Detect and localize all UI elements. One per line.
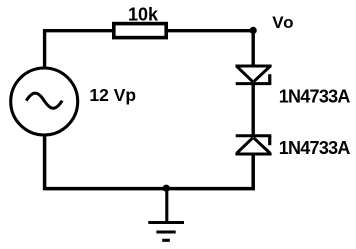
zener diode D1 (cathode down) <box>235 66 271 84</box>
svg-text:1N4733A: 1N4733A <box>279 138 351 158</box>
svg-text:12 Vp: 12 Vp <box>89 85 136 105</box>
ground symbol bars <box>148 223 184 241</box>
resistor R1 body <box>114 24 166 38</box>
ground stem wire <box>165 189 168 223</box>
svg-text:1N4733A: 1N4733A <box>279 87 351 107</box>
wire: Vo node down to zener D1 anode <box>251 31 254 66</box>
wire: top rail from Vo node to top-left corner and down to source top <box>45 31 254 67</box>
ground junction dot <box>163 185 170 192</box>
wire: D2 anode down, bottom rail, up to source bottom <box>45 137 254 189</box>
node Vo junction dot <box>250 27 257 34</box>
AC source V1 circle <box>11 68 78 135</box>
wire: D1 cathode to D2 cathode <box>251 84 254 136</box>
svg-text:10k: 10k <box>128 4 159 24</box>
zener diode D2 (cathode up) <box>235 136 271 154</box>
AC source sine wave <box>26 93 62 108</box>
svg-text:Vo: Vo <box>272 13 294 32</box>
